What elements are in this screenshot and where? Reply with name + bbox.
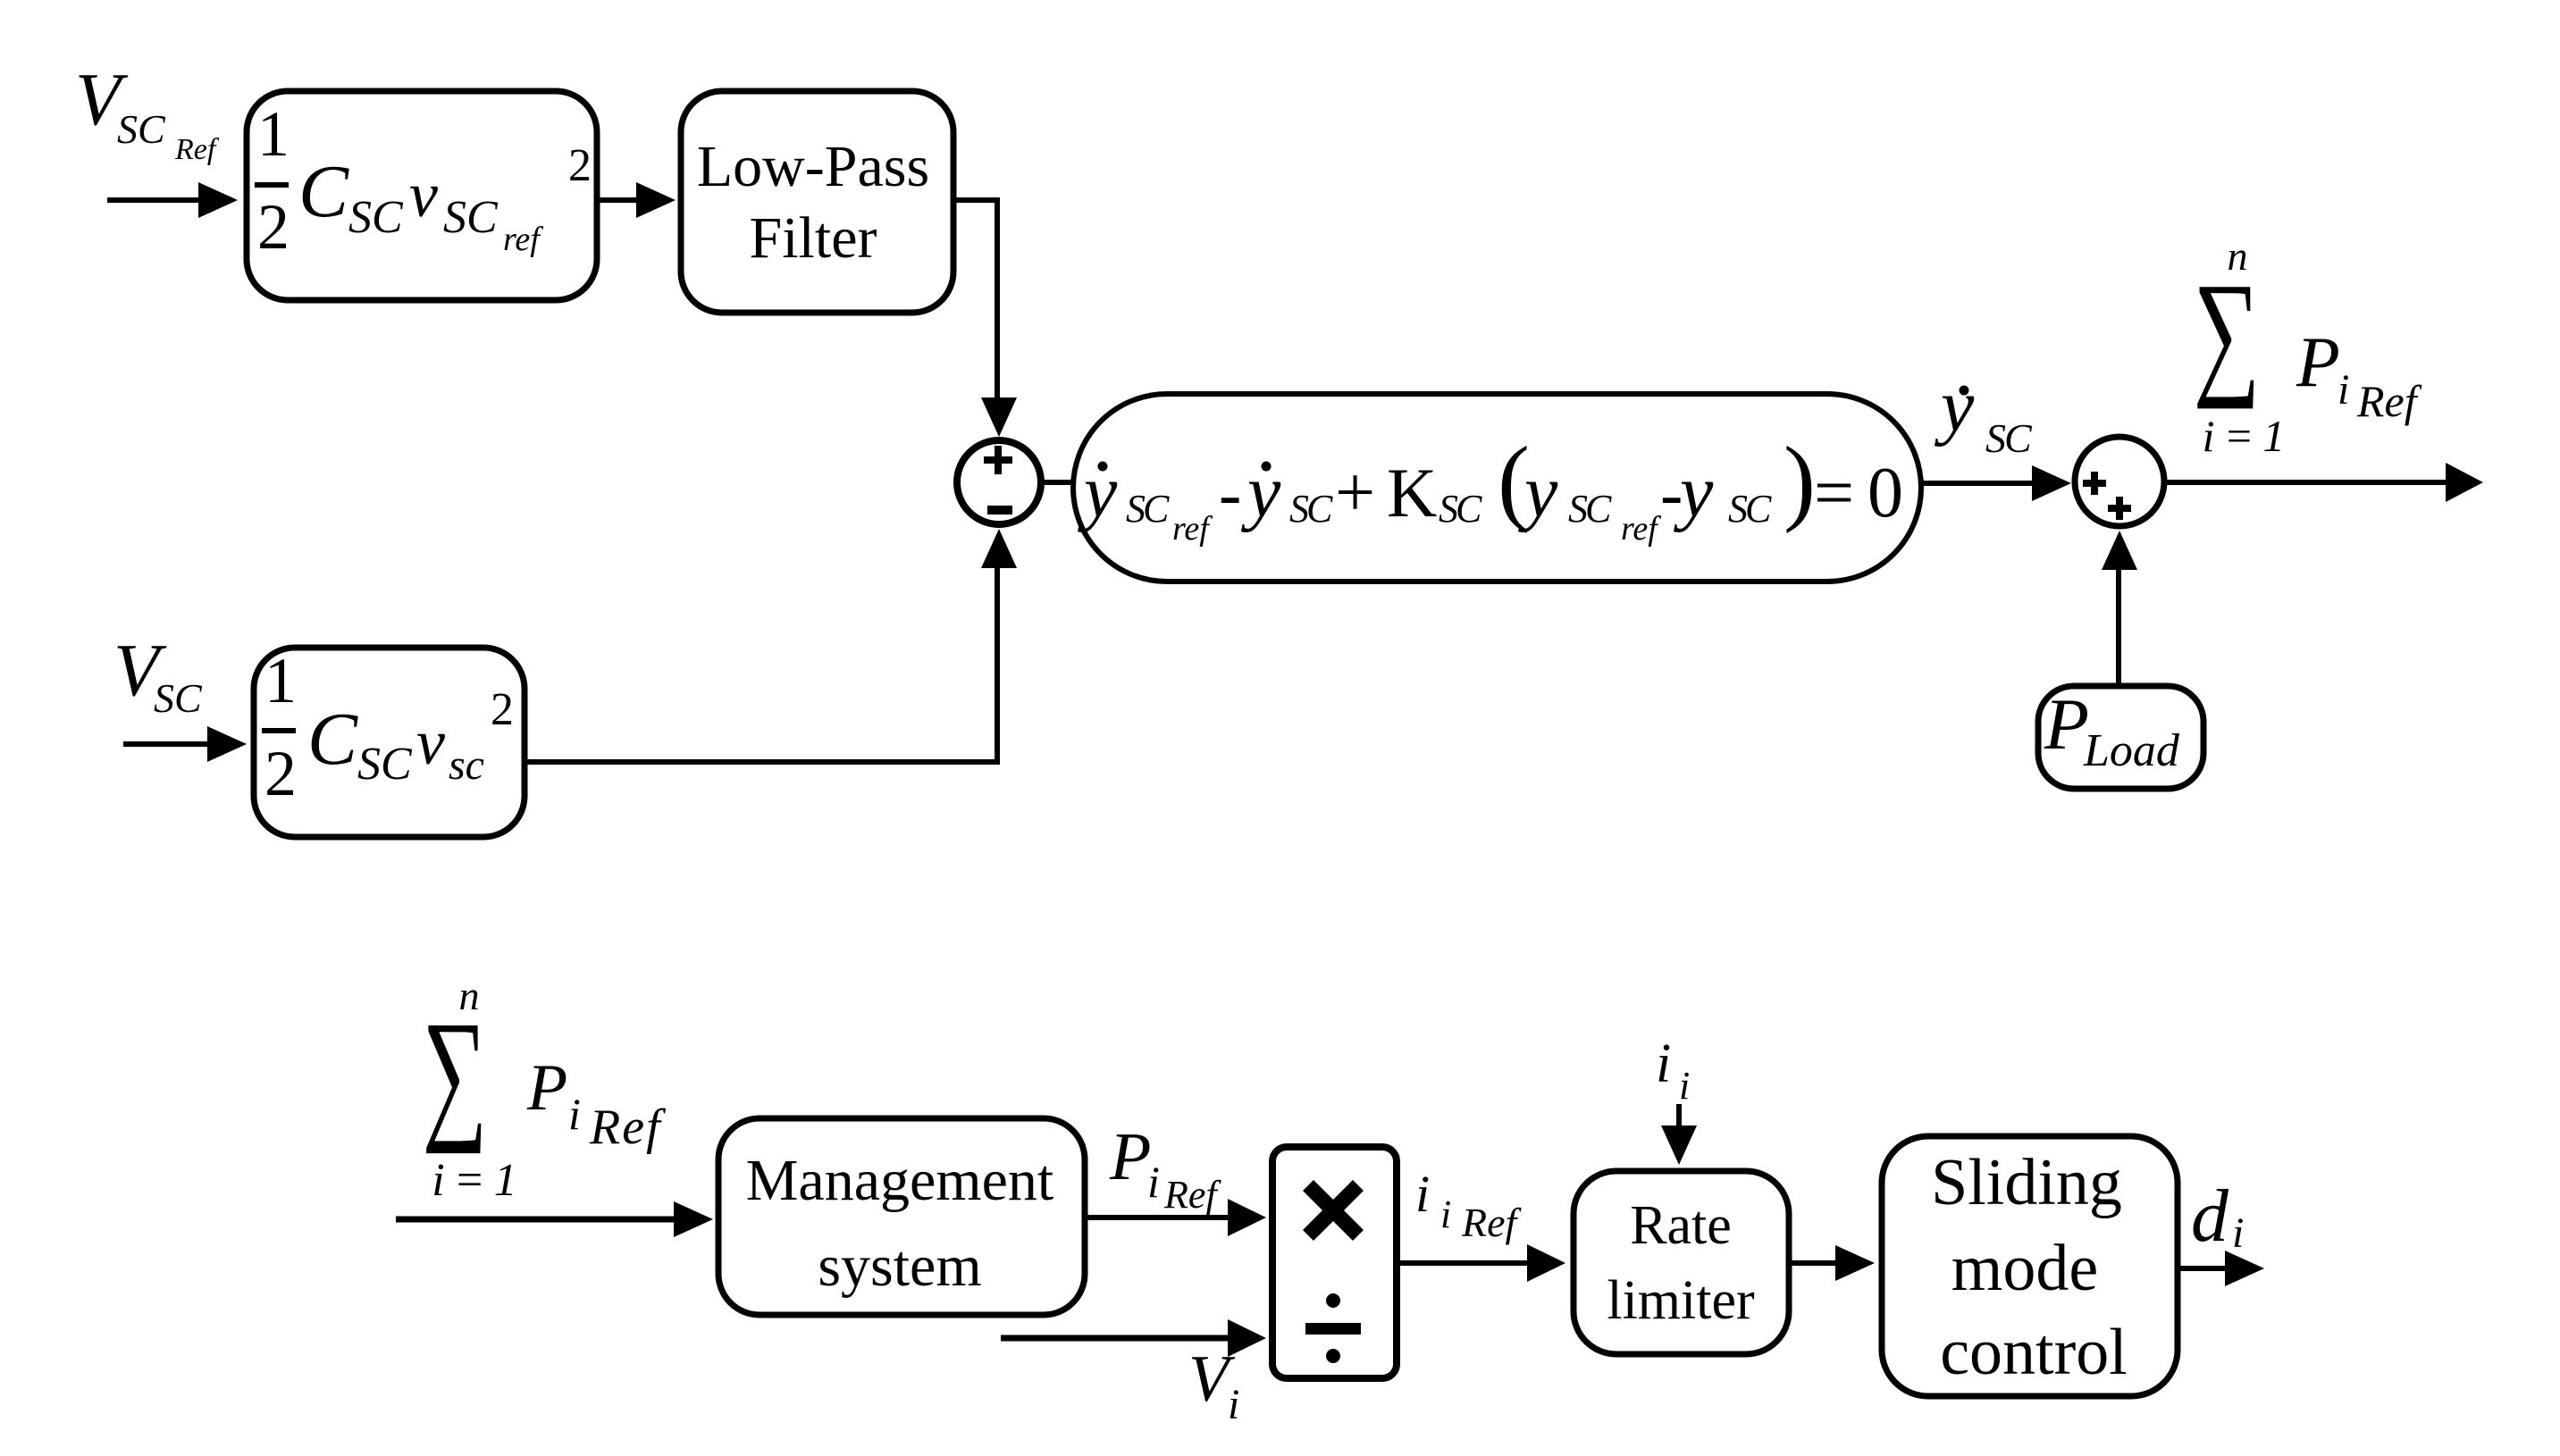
svg-text:2: 2 — [264, 738, 297, 809]
svg-text:P: P — [2296, 323, 2340, 402]
svg-text:v: v — [416, 707, 445, 778]
svg-text:1: 1 — [264, 645, 297, 716]
svg-text:Management: Management — [746, 1148, 1054, 1213]
wire: LPF output right then down into summing junction S1 — [953, 200, 1017, 437]
wire: VSCRef input arrow into block B1 — [107, 182, 238, 218]
equation text inside stadium — [1077, 428, 1903, 548]
label V_i — [1188, 1343, 1239, 1428]
svg-text:system: system — [818, 1234, 981, 1299]
wire: i_i down arrow into Rate limiter top — [1661, 1104, 1697, 1165]
svg-text:n: n — [2228, 233, 2248, 279]
svg-text:SC: SC — [1126, 487, 1170, 531]
svg-text:limiter: limiter — [1607, 1270, 1755, 1331]
svg-text:i: i — [1147, 1157, 1160, 1207]
svg-text:Rate: Rate — [1630, 1195, 1732, 1256]
svg-text:C: C — [298, 150, 349, 233]
svg-text:i=1: i=1 — [432, 1155, 526, 1206]
wire: Management to multiply-divide block — [1085, 1199, 1266, 1236]
wire: input arrow into Management system — [396, 1201, 713, 1237]
svg-text:2: 2 — [257, 191, 290, 263]
svg-text:P: P — [1109, 1119, 1151, 1194]
svg-text:SC: SC — [443, 192, 499, 243]
block B1: 1/2 Csc vSCref^2 — [247, 91, 597, 300]
svg-text:Load: Load — [2083, 725, 2180, 776]
summing junction S1 (plus on top, minus at bottom) — [957, 440, 1041, 524]
svg-text:Ref: Ref — [2356, 376, 2422, 426]
svg-text:): ) — [1784, 428, 1816, 534]
wire: multiply-divide to Rate limiter — [1397, 1244, 1565, 1282]
svg-text:i: i — [1415, 1165, 1430, 1223]
svg-text:Ref: Ref — [1163, 1173, 1221, 1217]
block: multiply-divide — [1272, 1147, 1397, 1378]
svg-text:sc: sc — [449, 741, 484, 789]
label sum_{i=1}^{n} P_iRef (top right) — [2194, 233, 2422, 461]
svg-text:+: + — [1335, 454, 1375, 532]
svg-text:SC: SC — [357, 739, 413, 790]
wire: stadium to summing junction S2 — [1921, 465, 2071, 501]
wire: S2 output arrow (sum Pi Ref) — [2164, 463, 2483, 502]
svg-text:i=1: i=1 — [2203, 411, 2295, 461]
block: P_Load — [2038, 683, 2203, 789]
block: Sliding mode control — [1882, 1136, 2178, 1396]
svg-text:SC: SC — [1289, 487, 1333, 531]
wire: Rate limiter to Sliding mode control — [1789, 1245, 1875, 1281]
svg-text:2: 2 — [491, 684, 514, 735]
svg-text:i: i — [568, 1089, 581, 1139]
svg-text:i: i — [1228, 1381, 1239, 1428]
svg-text:v: v — [409, 159, 438, 230]
block B2: Low-Pass Filter — [681, 91, 953, 313]
svg-text:i: i — [1656, 1033, 1671, 1094]
wire: B1 to Low-Pass Filter arrow — [597, 182, 676, 218]
block B3: 1/2 Csc vsc^2 — [254, 645, 525, 837]
label sum_{i=1}^{n} P_iRef (bottom left) — [423, 973, 667, 1206]
svg-text:Low-Pass: Low-Pass — [697, 134, 929, 199]
svg-text:1: 1 — [257, 98, 290, 170]
svg-text:-: - — [1219, 456, 1241, 531]
svg-text:Ref: Ref — [1461, 1200, 1523, 1245]
label i_iRef (multiply-divide output) — [1415, 1165, 1523, 1245]
summing junction S2 (plus left, plus bottom) — [2075, 437, 2164, 526]
svg-text:d: d — [2191, 1175, 2229, 1258]
svg-text:Filter: Filter — [750, 205, 877, 271]
svg-text:P: P — [526, 1051, 567, 1125]
block: sliding-surface equation stadium — [1073, 394, 1921, 582]
svg-text:SC: SC — [117, 106, 166, 152]
svg-text:SC: SC — [1439, 487, 1482, 531]
svg-text:=: = — [1814, 454, 1854, 532]
svg-text:SC: SC — [1728, 487, 1772, 531]
svg-text:Ref: Ref — [174, 133, 220, 166]
label ydot_SC on stadium output — [1934, 364, 2033, 461]
wire: S1 to equation stadium — [1041, 480, 1075, 485]
label P_iRef (management output) — [1109, 1119, 1221, 1217]
svg-text:SC: SC — [348, 192, 404, 243]
svg-text:P: P — [2044, 683, 2089, 765]
block: Management system — [718, 1118, 1085, 1315]
wire: V_SC input arrow into block B3 — [123, 726, 247, 762]
svg-text:ref: ref — [1172, 510, 1213, 548]
svg-text:2: 2 — [568, 140, 592, 191]
block: Rate limiter — [1574, 1171, 1789, 1354]
svg-text:control: control — [1940, 1316, 2128, 1389]
wire: P_Load up into S2 bottom — [2102, 531, 2137, 683]
svg-text:ref: ref — [503, 221, 543, 258]
svg-text:ref: ref — [1621, 510, 1661, 548]
wire: B3 output right then up into S1 bottom — [525, 529, 1017, 762]
svg-text:0: 0 — [1868, 454, 1903, 532]
svg-text:i: i — [1440, 1192, 1451, 1236]
svg-text:Ref: Ref — [589, 1100, 667, 1155]
svg-text:SC: SC — [1985, 415, 2033, 461]
svg-text:i: i — [2232, 1209, 2244, 1257]
wire: V_i input arrow into divide port — [1001, 1319, 1266, 1357]
svg-text:SC: SC — [1568, 487, 1612, 531]
svg-text:K: K — [1387, 454, 1437, 531]
svg-text:Sliding: Sliding — [1931, 1146, 2122, 1219]
label i_i above Rate limiter — [1656, 1033, 1690, 1108]
label d_i (output) — [2191, 1175, 2244, 1258]
svg-text:mode: mode — [1951, 1232, 2098, 1305]
svg-text:SC: SC — [154, 675, 203, 721]
wire: Sliding mode control output arrow — [2178, 1251, 2264, 1286]
node VSCRef input label — [75, 58, 220, 166]
svg-text:n: n — [459, 973, 480, 1018]
svg-text:i: i — [2338, 366, 2349, 414]
svg-text:i: i — [1679, 1064, 1690, 1108]
label V_SC (bottom-left input) — [113, 629, 203, 721]
svg-text:C: C — [307, 698, 358, 781]
